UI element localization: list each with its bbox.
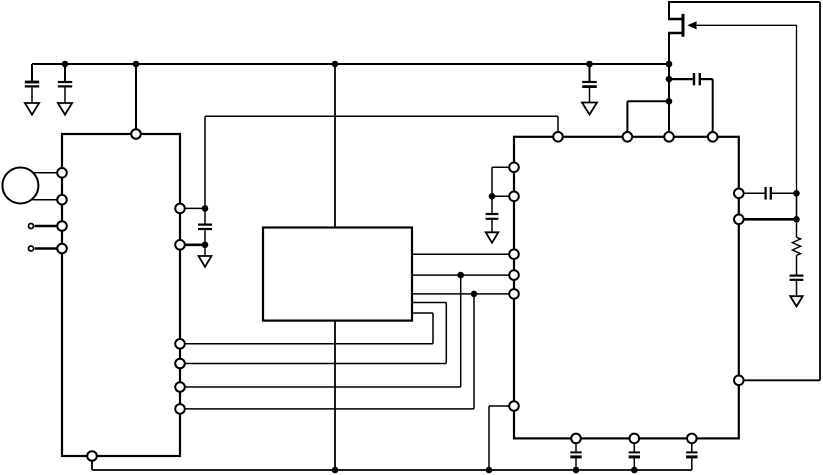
capacitor C10 (629, 438, 640, 470)
junction (332, 61, 339, 68)
capacitor C2 (58, 64, 72, 103)
junction (457, 272, 464, 279)
terminal J1 (29, 224, 63, 229)
wire (334, 64, 336, 228)
junction (489, 193, 496, 200)
wire (739, 218, 797, 221)
wire (180, 244, 205, 247)
capacitor C8 (790, 276, 804, 297)
ground (582, 103, 597, 115)
terminal J2 (29, 246, 63, 251)
pin U1 right 5 (175, 382, 185, 392)
ground (58, 103, 72, 115)
pin U1 right 1 (175, 204, 185, 214)
capacitor C1 (25, 64, 39, 103)
pin U3 top 4 (708, 132, 718, 142)
wire (33, 199, 63, 201)
junction (793, 216, 800, 223)
wire U2 to U3 line 2 (412, 274, 514, 276)
wire right loop (739, 2, 820, 380)
wire (712, 79, 714, 137)
pin U3 left 4 (509, 270, 519, 280)
wire gate (695, 25, 797, 193)
junction (133, 61, 140, 68)
wire U1 to U2 line 4 (180, 294, 474, 409)
wire U3 to ground rail (489, 406, 514, 470)
pin U3 top 3 (664, 132, 674, 142)
wire (204, 116, 206, 224)
microphone MK1 (2, 168, 38, 204)
junction (62, 61, 69, 68)
wire (135, 64, 137, 134)
IC U1 (62, 134, 180, 456)
capacitor C7 (766, 187, 797, 200)
pin U3 left 3 (509, 249, 519, 259)
junction (666, 76, 673, 83)
wire (492, 195, 514, 197)
ground (199, 245, 212, 267)
junction (586, 61, 593, 68)
pin U3 left 2 (509, 192, 519, 202)
wire U2 to U3 line 1 (412, 253, 514, 255)
capacitor C9 (570, 438, 581, 470)
capacitor C3 (582, 64, 597, 103)
wire U2 to U3 line 3 (412, 293, 514, 295)
pin U1 left 3 (57, 221, 67, 231)
pin U1 top (131, 129, 141, 139)
transistor Q1 (668, 14, 697, 37)
pin U1 left 1 (57, 168, 67, 178)
wire U1 to U2 line 2 (180, 303, 446, 364)
wire supply to U3 pin 1 (205, 116, 558, 137)
pin U3 left 5 (509, 289, 519, 299)
wire (627, 101, 669, 137)
IC U2 (263, 228, 412, 321)
junction (666, 61, 673, 68)
ground (486, 232, 499, 243)
pin U3 right 3 (734, 376, 744, 386)
capacitor C11 (686, 438, 697, 470)
wire (796, 193, 798, 219)
pin U3 top 1 (553, 132, 563, 142)
junction (631, 467, 638, 474)
wire (180, 207, 205, 209)
junction (793, 190, 800, 197)
junction (202, 205, 209, 212)
wire U1 to U2 line 1 (180, 313, 433, 344)
wire source (668, 33, 670, 64)
capacitor C4 (669, 73, 713, 85)
junction (332, 467, 339, 474)
wire drain to top rail (668, 2, 820, 19)
pin U1 right 6 (175, 404, 185, 414)
wire VDD rail (32, 63, 669, 65)
capacitor C6 (486, 196, 499, 232)
junction (666, 98, 673, 105)
resistor R1 (792, 219, 800, 275)
ground (25, 103, 39, 115)
junction (486, 467, 493, 474)
pin U3 bottom 2 (630, 434, 640, 444)
wire (739, 192, 765, 194)
wire (91, 456, 93, 470)
junction (573, 467, 580, 474)
junction (202, 242, 209, 249)
junction (471, 291, 478, 298)
wire U2 bottom to ground rail (334, 321, 336, 470)
pin U1 bottom (87, 451, 97, 461)
wire U1 to U2 line 3 (180, 275, 461, 387)
pin U3 bottom 3 (687, 434, 697, 444)
pin U1 right 4 (175, 359, 185, 369)
wire VDD into U3 (668, 64, 670, 137)
pin U3 right 2 (734, 215, 744, 225)
capacitor C5 (198, 225, 212, 245)
wire (34, 172, 63, 174)
pin U1 right 3 (175, 339, 185, 349)
IC U3 (514, 137, 739, 439)
pin U3 right 1 (734, 189, 744, 199)
pin U3 left 6 (509, 401, 519, 411)
wire (492, 167, 514, 196)
pin U1 right 2 (175, 240, 185, 250)
pin U3 bottom 1 (571, 434, 581, 444)
pin U3 left 1 (509, 163, 519, 173)
pin U1 left 2 (57, 195, 67, 205)
pin U3 top 2 (623, 132, 633, 142)
wire ground rail (92, 469, 692, 471)
ground (790, 296, 803, 306)
pin U1 left 4 (57, 244, 67, 254)
